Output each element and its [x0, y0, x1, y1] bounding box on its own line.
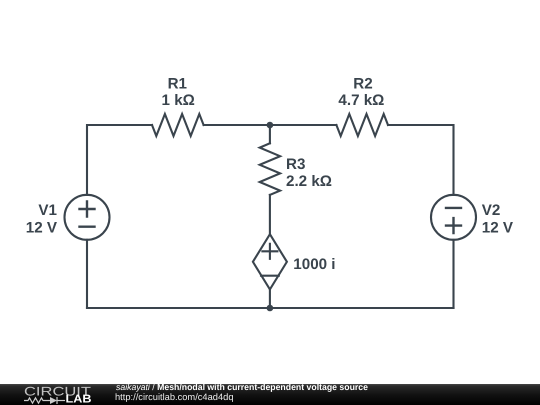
resistor R1	[152, 114, 204, 136]
svg-text:V2: V2	[482, 202, 501, 219]
svg-text:R2: R2	[353, 76, 372, 93]
resistor R3	[260, 143, 280, 195]
dependent source B1 diamond	[253, 234, 287, 289]
node junction bottom	[267, 305, 274, 312]
footer bar	[0, 384, 540, 405]
wire top-right segment	[388, 125, 454, 195]
wire V2 bottom lead	[452, 240, 454, 308]
dependent source plus sign	[262, 244, 277, 259]
wire between R1 and R2	[204, 124, 337, 126]
wire dependent source to bottom	[269, 289, 271, 308]
svg-text:4.7 kΩ: 4.7 kΩ	[338, 92, 384, 109]
V1 minus sign	[80, 225, 95, 227]
voltage source V1 circle	[65, 195, 110, 240]
svg-text:V1: V1	[38, 202, 57, 219]
svg-text:1 kΩ: 1 kΩ	[162, 92, 195, 109]
voltage source V2 circle	[431, 195, 476, 240]
svg-text:saikayati / Mesh/nodal with cu: saikayati / Mesh/nodal with current-depe…	[116, 382, 368, 392]
wire R3 to dependent source	[269, 195, 271, 234]
footer logo resistor-diode symbol	[24, 397, 65, 404]
wire top-left segment	[87, 125, 152, 195]
dependent source minus sign	[261, 275, 279, 277]
resistor R2	[336, 114, 388, 136]
wire bottom	[87, 307, 454, 309]
V2 minus sign	[446, 207, 461, 209]
svg-text:LAB: LAB	[66, 394, 92, 405]
wire R3 branch top	[269, 125, 271, 143]
svg-text:R1: R1	[168, 76, 188, 93]
svg-text:R3: R3	[286, 156, 305, 173]
V2 plus sign	[446, 218, 461, 233]
V1 plus sign	[80, 202, 95, 217]
wire V1 bottom lead	[86, 240, 88, 308]
svg-text:2.2 kΩ: 2.2 kΩ	[286, 173, 332, 190]
svg-text:12 V: 12 V	[26, 219, 58, 236]
svg-text:1000 i: 1000 i	[293, 256, 335, 273]
svg-text:12 V: 12 V	[482, 219, 514, 236]
svg-text:http://circuitlab.com/c4ad4dq: http://circuitlab.com/c4ad4dq	[115, 392, 234, 402]
node junction top	[267, 122, 274, 129]
